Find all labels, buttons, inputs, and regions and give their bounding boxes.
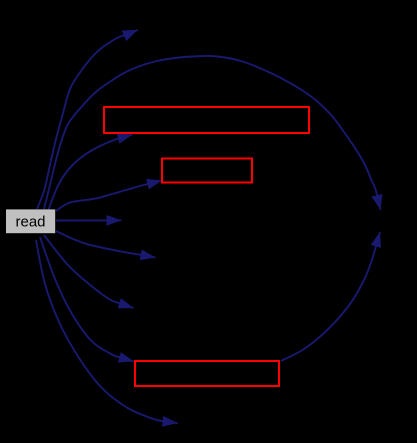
box1 (red truncated node) — [104, 107, 309, 133]
wire read->node f — [56, 231, 156, 258]
arrowhead c — [117, 133, 133, 143]
wire read->node g — [44, 235, 134, 308]
arrowhead g — [118, 298, 134, 308]
wire box3->right node — [281, 232, 380, 361]
wire read->top node — [37, 30, 138, 209]
arrowhead a — [122, 30, 138, 41]
arrowhead h — [118, 352, 134, 362]
arrowhead j — [371, 232, 381, 248]
arrowhead b — [371, 194, 382, 210]
node read — [6, 209, 55, 233]
wire read->right node (top arc) — [44, 56, 381, 210]
wire read->box1 — [48, 135, 133, 212]
wire read->bottom node (bottom arc) — [36, 240, 178, 423]
arrowhead i — [162, 416, 178, 427]
wire read->box2 — [56, 181, 162, 212]
arrowhead f — [140, 250, 156, 261]
box2 (red truncated node) — [162, 159, 252, 183]
wire read->mid node (horizontal) — [56, 219, 122, 221]
svg-text:read: read — [15, 213, 45, 230]
box3 (red truncated node) — [135, 361, 279, 386]
arrowhead d — [146, 179, 162, 190]
arrowhead e — [107, 215, 122, 226]
wire read->box3 — [40, 237, 134, 362]
